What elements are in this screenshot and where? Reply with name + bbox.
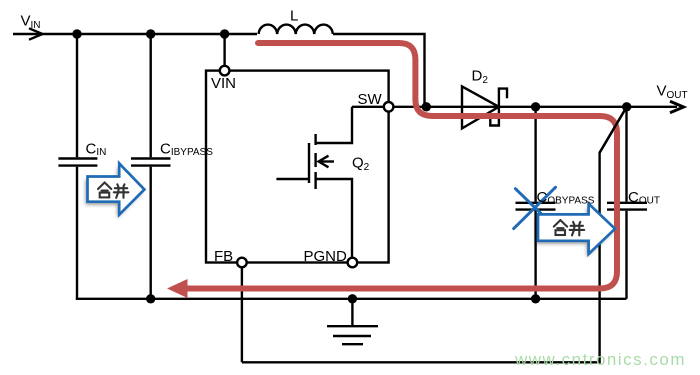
svg-text:PGND: PGND bbox=[304, 248, 348, 265]
svg-text:SW: SW bbox=[358, 91, 383, 108]
svg-text:FB: FB bbox=[214, 248, 233, 265]
svg-text:www.cntronics.com: www.cntronics.com bbox=[514, 350, 686, 369]
svg-text:VIN: VIN bbox=[211, 75, 236, 92]
svg-text:L: L bbox=[290, 8, 298, 25]
